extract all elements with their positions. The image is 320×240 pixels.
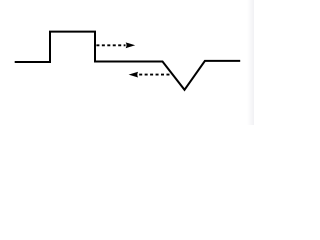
dashed arrow left (reflected pulse direction) [129, 72, 170, 78]
wave trace: baseline, rectangular incident pulse, mid line, inverted triangular reflected pulse [15, 32, 241, 90]
dashed arrow right (incident pulse direction) [96, 42, 135, 48]
faint page edge at right [247, 0, 254, 125]
